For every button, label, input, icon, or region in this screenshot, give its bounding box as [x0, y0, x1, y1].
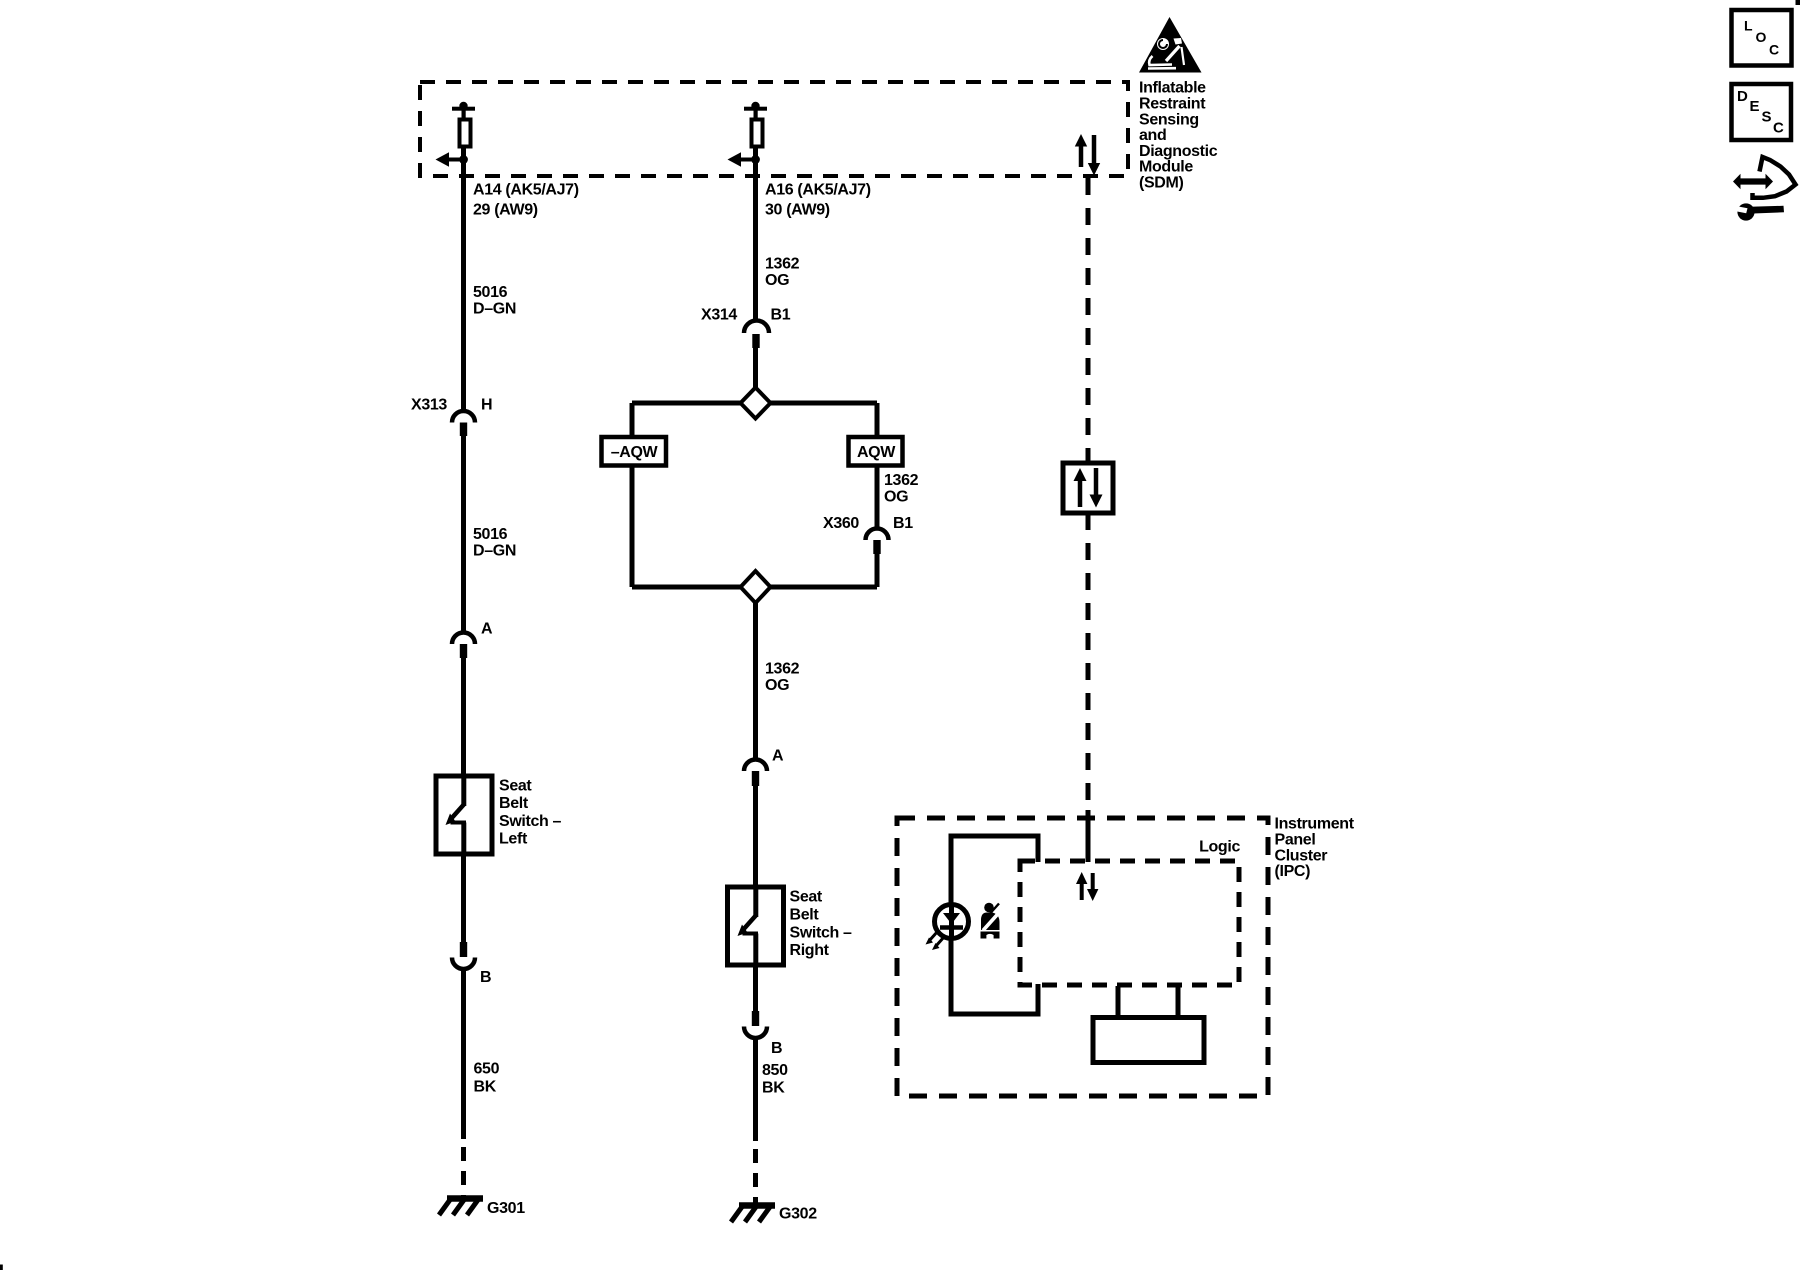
IPC display block — [1093, 986, 1204, 1063]
diagnostic arrow-wrench icon — [1731, 157, 1796, 221]
wire AQW to X360 — [875, 466, 880, 529]
branch horizontal wire at top diamond — [632, 401, 877, 406]
svg-text:Seat: Seat — [790, 889, 823, 906]
wire X314 to splice diamond — [753, 348, 758, 390]
serial data wire solid segment into Logic — [1086, 810, 1091, 862]
svg-text:Restraint: Restraint — [1139, 96, 1206, 113]
node: left SDM output junction dot — [459, 155, 468, 164]
wire left branch down to -AQW — [630, 403, 635, 439]
left internal arrow to SDM — [436, 152, 464, 167]
svg-text:Switch –: Switch – — [790, 924, 853, 941]
wire left squib to X313 — [461, 149, 466, 412]
svg-text:Module: Module — [1139, 159, 1193, 176]
svg-text:O: O — [1756, 29, 1767, 45]
svg-text:Right: Right — [790, 942, 830, 959]
svg-text:Switch –: Switch – — [499, 813, 562, 830]
splice diamond upper — [741, 388, 771, 419]
svg-text:OG: OG — [765, 272, 789, 289]
connector X313 symbol — [452, 411, 475, 436]
svg-text:Diagnostic: Diagnostic — [1139, 143, 1218, 160]
svg-text:–AQW: –AQW — [611, 444, 659, 461]
seat belt telltale icon — [981, 903, 1001, 939]
seat belt switch right box — [728, 887, 784, 965]
driver squib resistor (left, inside SDM) — [452, 102, 475, 147]
svg-text:5016: 5016 — [473, 526, 508, 543]
svg-text:B1: B1 — [771, 307, 791, 324]
dashed ground lead left — [461, 1147, 466, 1197]
svg-text:Inflatable: Inflatable — [1139, 80, 1206, 97]
svg-text:D–GN: D–GN — [473, 543, 516, 560]
serial data dashed wire SDM to connector box — [1086, 178, 1091, 463]
svg-text:BK: BK — [762, 1080, 785, 1097]
wire X360 to bottom diamond — [875, 554, 880, 587]
svg-text:A14 (AK5/AJ7): A14 (AK5/AJ7) — [473, 182, 579, 199]
connector X314 symbol — [744, 321, 769, 349]
svg-text:Cluster: Cluster — [1275, 847, 1328, 864]
node: right SDM output junction dot — [751, 155, 760, 164]
svg-text:30 (AW9): 30 (AW9) — [765, 202, 830, 219]
svg-text:and: and — [1139, 127, 1166, 144]
svg-text:G302: G302 — [779, 1205, 817, 1222]
svg-text:5016: 5016 — [473, 284, 508, 301]
svg-text:B: B — [771, 1040, 782, 1057]
svg-text:BK: BK — [474, 1079, 497, 1096]
svg-text:1362: 1362 — [765, 660, 800, 677]
passenger squib resistor (right, inside SDM) — [744, 102, 767, 147]
svg-text:D–GN: D–GN — [473, 301, 516, 318]
svg-text:A: A — [772, 748, 784, 765]
harness option box AQW — [849, 437, 903, 466]
branch horizontal wire at bottom diamond — [632, 585, 877, 590]
LED indicator — [926, 905, 969, 951]
wire switch right to connector B — [753, 965, 758, 1011]
svg-text:D: D — [1737, 88, 1748, 105]
svg-text:B1: B1 — [893, 515, 913, 532]
wire connector A to seat belt switch left — [461, 658, 466, 778]
svg-text:B: B — [480, 969, 491, 986]
svg-text:X314: X314 — [701, 307, 737, 324]
wire connector B to ground lead left — [461, 969, 466, 1139]
Logic dashed box — [1020, 861, 1239, 985]
svg-text:OG: OG — [884, 488, 908, 505]
svg-text:L: L — [1744, 18, 1753, 34]
wire connector B to ground lead right — [753, 1038, 758, 1141]
SRS warning triangle icon — [1139, 17, 1202, 73]
IPC dashed box — [897, 818, 1268, 1096]
wire right squib to X314 — [753, 149, 758, 322]
ground G301 — [439, 1197, 483, 1215]
svg-text:Left: Left — [499, 831, 528, 848]
ground G302 — [731, 1204, 775, 1222]
right internal arrow to SDM — [728, 152, 756, 167]
svg-text:650: 650 — [474, 1061, 500, 1078]
SDM module dashed box — [420, 82, 1128, 176]
svg-text:1362: 1362 — [765, 256, 800, 273]
svg-text:Panel: Panel — [1275, 832, 1316, 849]
svg-text:S: S — [1762, 109, 1772, 126]
svg-text:(SDM): (SDM) — [1139, 175, 1183, 192]
svg-text:Belt: Belt — [790, 907, 820, 924]
connector B symbol right — [744, 1011, 767, 1038]
inline serial data connector box — [1063, 463, 1113, 513]
svg-text:G301: G301 — [487, 1200, 525, 1217]
page edge speck bottom-left — [0, 1265, 3, 1271]
svg-text:H: H — [481, 397, 492, 414]
svg-text:AQW: AQW — [857, 444, 896, 461]
IPC lamp driver loop wire — [951, 836, 1038, 1014]
DESC reference box — [1732, 84, 1792, 140]
LOC reference box — [1732, 10, 1792, 66]
svg-text:Sensing: Sensing — [1139, 111, 1199, 128]
page edge speck top-right — [1796, 0, 1800, 5]
harness option box -AQW — [602, 437, 667, 466]
serial data arrows inside SDM — [1075, 134, 1100, 176]
wire right branch down to AQW — [875, 403, 880, 439]
svg-text:E: E — [1750, 98, 1760, 115]
wire switch left to connector B — [461, 854, 466, 942]
svg-text:Logic: Logic — [1199, 839, 1240, 856]
svg-text:Seat: Seat — [499, 777, 532, 794]
svg-text:C: C — [1769, 42, 1779, 58]
connector A symbol left — [452, 633, 475, 659]
wire connector A to seat belt switch right — [753, 786, 758, 889]
svg-text:(IPC): (IPC) — [1275, 863, 1311, 880]
svg-text:Belt: Belt — [499, 795, 529, 812]
svg-text:A: A — [481, 621, 493, 638]
svg-text:C: C — [1773, 120, 1784, 137]
svg-text:X360: X360 — [823, 515, 859, 532]
connector X360 symbol — [866, 529, 889, 555]
seat belt switch left box — [436, 776, 492, 854]
svg-text:A16 (AK5/AJ7): A16 (AK5/AJ7) — [765, 182, 871, 199]
wire X313 to connector A left — [461, 436, 466, 632]
svg-text:OG: OG — [765, 677, 789, 694]
svg-text:1362: 1362 — [884, 472, 919, 489]
connector A symbol right — [744, 760, 767, 787]
svg-text:29 (AW9): 29 (AW9) — [473, 202, 538, 219]
wire -AQW down to bottom diamond — [630, 466, 635, 588]
connector B symbol left — [452, 942, 475, 969]
serial data arrows inside Logic — [1076, 872, 1098, 901]
dashed ground lead right — [753, 1149, 758, 1204]
wire bottom diamond to connector A right — [753, 603, 758, 760]
svg-text:X313: X313 — [411, 397, 447, 414]
svg-text:Instrument: Instrument — [1275, 816, 1355, 833]
splice diamond lower — [741, 571, 771, 603]
serial data dashed wire connector box to IPC — [1086, 513, 1091, 812]
svg-text:850: 850 — [762, 1062, 788, 1079]
